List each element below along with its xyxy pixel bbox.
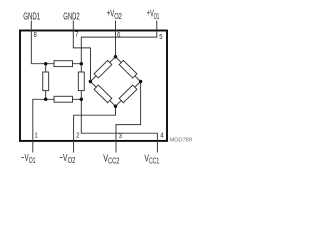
svg-text:7: 7 (75, 32, 78, 39)
node dot bridge2 left vertex (89, 80, 93, 84)
svg-text:3: 3 (119, 133, 122, 140)
pin 3 lead wire (bridge2 right vertex to VCC2) (116, 82, 141, 153)
svg-text:O2: O2 (68, 156, 76, 165)
pin 2 lead wire (bridge2 bottom vertex to -VO2) (74, 106, 116, 152)
node dot bridge1 bottom-right (80, 98, 84, 102)
svg-text:−V: −V (59, 153, 67, 164)
pin 7 lead wire (GND2 to bridge2 left vertex) (73, 21, 90, 82)
bridge1 bottom edge wire (46, 98, 82, 100)
pin label VCC2 (103, 154, 119, 166)
pin 5 lead wire (+VO1 to bridge1 top-right) (81, 21, 157, 64)
pin 1 lead wire (bridge1 bottom-left to -VO1) (33, 99, 46, 152)
bridge1 resistor right (78, 72, 84, 91)
svg-text:2: 2 (76, 133, 79, 140)
pin number 6 (117, 32, 120, 39)
svg-text:5: 5 (159, 34, 162, 41)
svg-text:CC2: CC2 (108, 156, 120, 165)
pin 4 lead wire (bridge1 bottom-right to VCC1) (81, 99, 157, 152)
svg-text:4: 4 (160, 132, 163, 139)
node dot bridge2 right vertex (139, 80, 143, 84)
pin number 4 (160, 132, 163, 139)
svg-text:GND2: GND2 (63, 11, 79, 22)
IC body outline (20, 31, 167, 141)
pin label -VO2 (59, 153, 76, 165)
pin label VCC1 (144, 154, 159, 166)
bridge2 top-left edge wire (90, 57, 115, 82)
bridge2 resistor top-left (94, 60, 112, 78)
pin label +VO2 (107, 9, 123, 21)
pin label +VO1 (147, 9, 160, 21)
pin number 2 (76, 133, 79, 140)
bridge2 bottom-right edge wire (116, 82, 141, 107)
pin 8 lead wire (GND1 to bridge1 top-left) (31, 21, 45, 64)
pin label GND2 (63, 11, 79, 22)
svg-text:1: 1 (34, 133, 37, 140)
node dot bridge1 top-right (80, 62, 84, 65)
pin number 1 (34, 133, 37, 140)
bridge1 top edge wire (46, 63, 82, 65)
node dot bridge2 top vertex (114, 55, 118, 59)
node dot bridge2 bottom vertex (114, 104, 118, 108)
bridge2 resistor bottom-right (119, 85, 137, 103)
svg-text:MGD789: MGD789 (170, 137, 193, 143)
svg-text:O2: O2 (114, 12, 122, 21)
bridge2 bottom-left edge wire (90, 82, 115, 107)
pin number 3 (119, 133, 122, 140)
caption MGD789 (170, 137, 193, 143)
pin number 8 (34, 32, 37, 39)
svg-text:8: 8 (34, 32, 37, 39)
pin number 7 (75, 32, 78, 39)
bridge2 top-right edge wire (116, 57, 141, 82)
svg-text:6: 6 (117, 32, 120, 39)
bridge1 right edge wire (80, 64, 82, 100)
svg-text:O1: O1 (29, 156, 36, 165)
bridge1 resistor left (43, 72, 49, 91)
svg-text:−V: −V (21, 153, 29, 164)
bridge1 left edge wire (45, 64, 47, 100)
svg-text:CC1: CC1 (149, 156, 159, 165)
svg-text:O1: O1 (154, 12, 160, 21)
pin label -VO1 (21, 153, 36, 165)
bridge2 resistor top-right (119, 60, 137, 78)
pin number 5 (159, 34, 162, 41)
bridge1 resistor bottom (54, 96, 73, 102)
node dot bridge1 top-left (44, 62, 48, 65)
pin label GND1 (23, 11, 40, 22)
bridge2 resistor bottom-left (94, 85, 112, 103)
node dot bridge1 bottom-left (44, 98, 48, 102)
svg-text:GND1: GND1 (23, 11, 40, 22)
pin 6 lead wire (+VO2 to bridge2 top vertex) (115, 21, 117, 57)
bridge1 resistor top (54, 61, 73, 67)
